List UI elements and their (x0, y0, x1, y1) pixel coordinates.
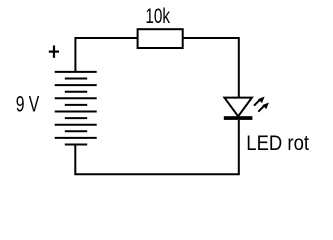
battery B1 (9 V multi-cell symbol) (55, 72, 97, 145)
LED light emission arrow 2 (258, 103, 269, 112)
LED D1 cathode bar (224, 116, 253, 120)
LED D1 triangle (anode) (224, 98, 252, 117)
resistor R1 (box symbol) (138, 29, 183, 48)
wire from battery + terminal up and right to resistor R1 (75, 38, 137, 72)
svg-text:10k: 10k (145, 5, 170, 28)
svg-text:9 V: 9 V (16, 92, 40, 117)
plus sign (+) at battery positive terminal (49, 46, 59, 58)
svg-text:LED rot: LED rot (246, 132, 309, 155)
wire from LED D1 cathode down, left along bottom, and up to battery - terminal (75, 120, 239, 174)
LED light emission arrow 1 (254, 97, 265, 106)
wire from resistor R1 right and down to LED D1 anode (183, 38, 239, 98)
